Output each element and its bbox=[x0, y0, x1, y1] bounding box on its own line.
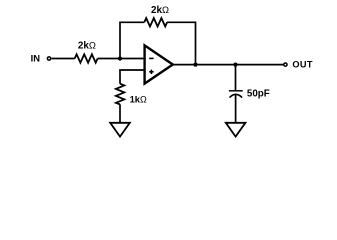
svg-text:50pF: 50pF bbox=[247, 89, 270, 100]
terminal IN bbox=[47, 57, 50, 60]
wire IN to R1 bbox=[51, 58, 74, 60]
resistor R1 2k ohm (horizontal) bbox=[75, 54, 98, 62]
resistor R3 1k ohm (vertical) bbox=[116, 84, 124, 105]
op-amp minus sign bbox=[149, 57, 153, 59]
ground G2 bbox=[226, 123, 246, 137]
op-amp plus sign bbox=[149, 71, 153, 73]
wire feedback left/top bbox=[120, 22, 144, 58]
node junction A (inverting input) bbox=[118, 56, 122, 60]
svg-text:1kΩ: 1kΩ bbox=[130, 94, 147, 105]
wire feedback right bbox=[167, 22, 195, 64]
wire C1 to ground bbox=[235, 94, 237, 122]
svg-text:2kΩ: 2kΩ bbox=[151, 4, 169, 16]
node junction B (output of op-amp) bbox=[193, 63, 197, 67]
resistor R2 2k ohm (feedback, horizontal) bbox=[144, 18, 167, 26]
wire junction C down to C1 bbox=[235, 65, 237, 91]
wire R3 to ground bbox=[119, 104, 121, 122]
wire non-inverting input bbox=[120, 70, 144, 84]
capacitor C1 top plate bbox=[229, 90, 243, 92]
ground G1 bbox=[110, 123, 130, 137]
svg-text:2kΩ: 2kΩ bbox=[78, 40, 96, 52]
terminal OUT bbox=[284, 63, 287, 66]
op-amp U1 bbox=[145, 45, 173, 83]
svg-text:OUT: OUT bbox=[292, 60, 312, 70]
wire op-amp output to OUT bbox=[173, 64, 284, 66]
node junction C (capacitor tap) bbox=[233, 63, 237, 67]
wire R1 to op-amp inverting input bbox=[98, 58, 144, 60]
svg-text:IN: IN bbox=[31, 53, 41, 64]
capacitor C1 bottom plate (curved) bbox=[230, 94, 243, 97]
